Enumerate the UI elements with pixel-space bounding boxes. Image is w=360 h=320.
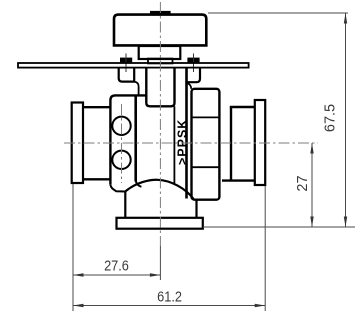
svg-text:27: 27 xyxy=(295,175,311,191)
svg-text:27.6: 27.6 xyxy=(104,258,129,274)
svg-text:>PPSK: >PPSK xyxy=(175,119,189,165)
svg-text:61.2: 61.2 xyxy=(157,289,182,305)
svg-text:67.5: 67.5 xyxy=(323,104,339,132)
